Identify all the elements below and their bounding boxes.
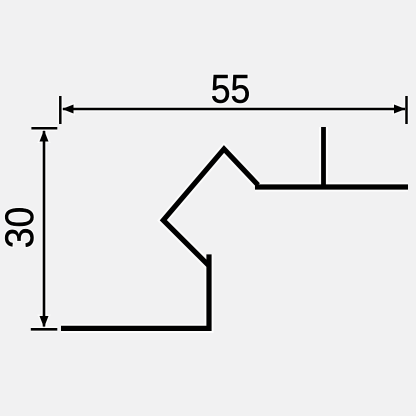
dimension 55: right arrowhead	[394, 105, 406, 114]
profile outline: bottom leg + riser	[61, 254, 209, 328]
dimension 30: dimension line	[43, 131, 46, 327]
profile outline: vertical stub	[321, 127, 326, 187]
svg-text:30: 30	[0, 207, 42, 249]
profile outline: zig-zag (diagonal A, B, C)	[163, 149, 258, 265]
halo under dimension lines	[31, 96, 407, 329]
dimension 30: top arrowhead	[40, 130, 49, 142]
dimension 55: dimension line	[63, 108, 405, 111]
dimension 30: bottom extension tick	[31, 328, 58, 331]
dimension 30: label (rotated)	[0, 207, 42, 249]
dimension 55: label	[211, 68, 251, 112]
dimension 30: bottom arrowhead	[40, 316, 49, 328]
profile outline: top horizontal flange	[255, 184, 408, 189]
svg-text:55: 55	[211, 68, 251, 112]
white halo under profile outline	[61, 127, 408, 328]
dimension 55: right extension tick	[405, 96, 408, 124]
dimension 55: left arrowhead	[62, 105, 74, 114]
dimension 55: left extension tick	[59, 96, 62, 124]
dimension 30: top extension tick	[31, 127, 57, 130]
